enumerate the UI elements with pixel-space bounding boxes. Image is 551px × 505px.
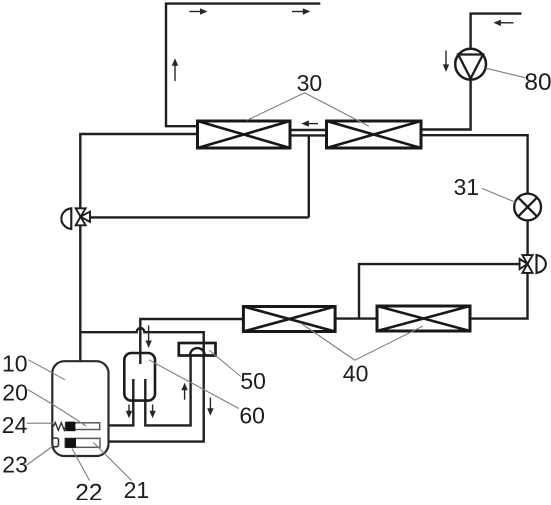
leader line for label 10 (29, 360, 66, 380)
wire vessel 60 left leg down and left into tank 10 (109, 379, 134, 425)
leader line for label 80 (486, 68, 526, 78)
leader line for label 30 (247, 93, 369, 126)
flow arrow left of vessel leg (down) (126, 405, 132, 419)
svg-text:20: 20 (2, 380, 28, 406)
leader line for label 31 (482, 188, 516, 202)
svg-text:23: 23 (2, 452, 28, 478)
leader line for label 50 (209, 350, 241, 377)
leader line for label 40 (302, 324, 423, 360)
flow arrow between HX30s (left) (301, 120, 318, 126)
heat exchanger 30 left (198, 121, 291, 148)
wire pump 80 top up and right (open end) (471, 14, 522, 49)
flow arrow at riser to 50 (up) (181, 383, 187, 400)
expansion valve 31 (514, 194, 541, 221)
accumulator vessel 60 (124, 353, 155, 401)
flow arrow left loop (up) (172, 58, 178, 81)
wire junction between HX30s down to long run (308, 135, 310, 217)
heater block (black) of element 20 (65, 422, 75, 432)
svg-text:21: 21 (124, 477, 150, 500)
svg-text:40: 40 (343, 361, 369, 387)
svg-text:10: 10 (2, 351, 28, 377)
element 22 (black block) (65, 438, 76, 448)
wire between HX30s upper (290, 129, 327, 131)
flow arrow beside pump 80 (down) (443, 51, 449, 72)
flow arrow right of vessel leg (down) (149, 405, 155, 419)
wire vessel 60 right leg down, right, and up to dome of 50 (145, 355, 190, 425)
3-way valve V1 (left) (61, 208, 90, 229)
heat exchanger 30 right (327, 121, 422, 148)
wire valve 31 bottom to 3-way valve V2 top (526, 220, 528, 255)
flow arrow right of pipe x=204 (down) (207, 398, 213, 416)
leader line for label 23 (27, 447, 53, 466)
heat exchanger 40 left (243, 307, 335, 332)
flow arrow at vessel 60 inlet (down) (145, 326, 151, 349)
leader line for label 21 (93, 442, 131, 480)
leader line for label 20 (28, 390, 87, 427)
wire 3-way valve V2 left port to junction riser x=359 (359, 264, 520, 319)
svg-text:60: 60 (239, 403, 265, 429)
heat exchanger 40 right (377, 306, 470, 331)
heater element 20 (slot with white window) (66, 423, 100, 430)
svg-text:24: 24 (2, 412, 28, 438)
flow arrow top-left 2 (right) (292, 8, 310, 14)
svg-text:50: 50 (240, 368, 266, 394)
blower 50 (179, 343, 216, 356)
port 23 on tank wall (53, 438, 59, 447)
leader line for label 60 (149, 360, 239, 409)
wire between HX30s lower (290, 134, 327, 136)
3-way valve V2 (right) (520, 255, 546, 273)
spring 24 (53, 423, 65, 431)
leader line for label 22 (72, 449, 90, 481)
wire HX40-left left port to vessel 60 inlet (140, 319, 243, 364)
element 21 (slot with white window) (65, 438, 100, 447)
svg-text:31: 31 (454, 174, 480, 200)
wire branch y=332 with crossover hop, riser x=203.7, pipe C to tank (80, 328, 203, 441)
pump 80 (455, 49, 486, 80)
wire long run from 3-way valve V1 right port (90, 216, 309, 218)
tank 10 (52, 361, 108, 456)
svg-text:80: 80 (524, 69, 551, 96)
flow arrow top-left 1 (right) (189, 8, 207, 14)
wire between HX40s (335, 317, 377, 319)
svg-text:22: 22 (75, 479, 102, 500)
wire HX30-right lower port right and down to valve 31 (421, 135, 528, 194)
flow arrow top-right (left) (493, 20, 513, 26)
svg-text:30: 30 (297, 70, 323, 96)
leader line for label 24 (27, 422, 54, 424)
wire HX30-left lower port left and down to 3-way valve V1 (80, 134, 197, 208)
wire top loop from HX30-left upper port up and right (166, 4, 320, 127)
wire 3-way valve V2 bottom down and left to HX40-right (470, 273, 528, 319)
wire 3-way valve V1 bottom down to tank 10 (79, 225, 81, 361)
wire HX30-right upper port to pump 80 bottom (421, 80, 471, 130)
